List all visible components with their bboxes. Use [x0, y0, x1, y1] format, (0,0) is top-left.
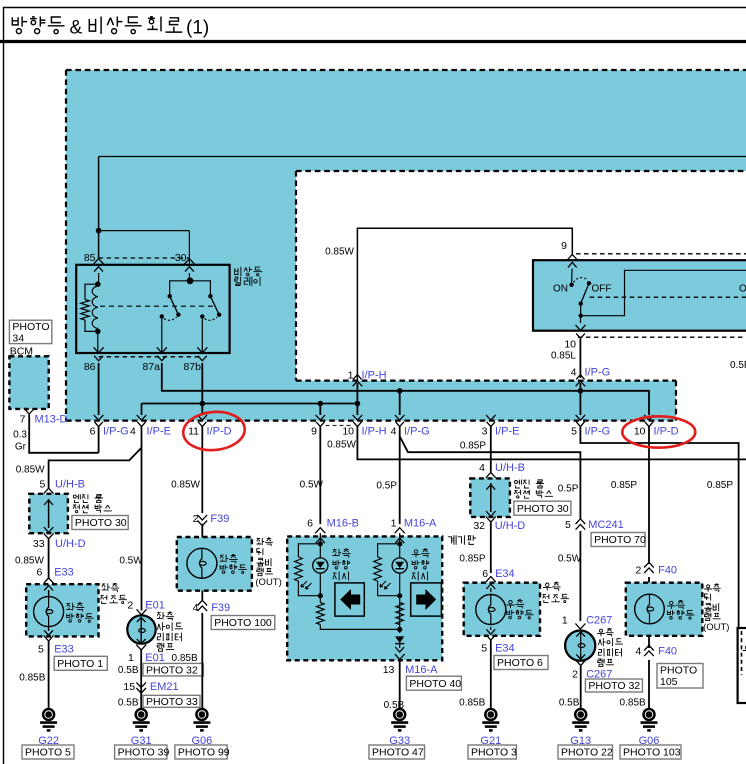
- connector 5 I/P-G: [576, 415, 586, 420]
- svg-text:0.85B: 0.85B: [459, 698, 485, 709]
- red ellipse around 10 I/P-D: [622, 416, 695, 447]
- svg-text:0.85L: 0.85L: [551, 351, 576, 362]
- svg-text:9: 9: [561, 240, 567, 252]
- connector 9: [316, 415, 326, 420]
- svg-text:10: 10: [342, 425, 354, 437]
- svg-text:Gr: Gr: [15, 441, 27, 452]
- svg-text:0.5B: 0.5B: [559, 698, 580, 709]
- F40 lamp box (right rear combination lamp): [626, 583, 703, 636]
- label 5 E34: [486, 635, 496, 641]
- lamp F39: [187, 548, 217, 578]
- svg-text:PHOTO 100: PHOTO 100: [214, 617, 272, 629]
- svg-text:PHOTO 3: PHOTO 3: [471, 747, 517, 759]
- connector 4 F40: [644, 651, 654, 656]
- ground G22: [48, 708, 50, 709]
- svg-text:6: 6: [482, 568, 488, 580]
- svg-text:PHOTO 22: PHOTO 22: [561, 747, 613, 759]
- svg-text:4: 4: [479, 462, 485, 474]
- svg-text:0.5P: 0.5P: [558, 484, 579, 495]
- svg-text:PHOTO 5: PHOTO 5: [25, 747, 71, 759]
- svg-text:I/P-H: I/P-H: [362, 425, 387, 437]
- PHOTO 40 box: [406, 676, 461, 690]
- right edge component box: [738, 628, 746, 703]
- harness region: [66, 70, 746, 421]
- svg-text:I/P-E: I/P-E: [495, 425, 519, 437]
- svg-text:F40: F40: [658, 646, 677, 658]
- PHOTO 30 box left: [72, 516, 128, 530]
- svg-text:105: 105: [660, 676, 678, 688]
- black left arrow: [335, 583, 364, 616]
- svg-text:1: 1: [562, 614, 568, 626]
- svg-text:PHOTO 70: PHOTO 70: [594, 534, 646, 546]
- junction box engine room (right): [470, 478, 510, 517]
- connector 5 MC241: [576, 524, 586, 529]
- hazard switch box: [533, 260, 746, 331]
- svg-text:32: 32: [473, 520, 485, 532]
- svg-text:PHOTO 99: PHOTO 99: [178, 747, 230, 759]
- svg-text:34: 34: [12, 332, 24, 344]
- ground G33: [399, 708, 401, 709]
- lamp E01 (left side repeater): [127, 615, 155, 643]
- svg-text:86: 86: [84, 361, 96, 373]
- svg-text:PHOTO: PHOTO: [660, 665, 697, 677]
- svg-text:2: 2: [193, 513, 199, 525]
- cluster right branch (right turn indicator): [399, 533, 401, 558]
- PHOTO 70 box: [591, 533, 645, 547]
- PHOTO 1 box: [54, 656, 107, 670]
- svg-text:&: &: [70, 18, 83, 39]
- PHOTO 5 box: [22, 745, 74, 759]
- lamp F40: [635, 594, 665, 624]
- svg-text:1: 1: [348, 370, 354, 382]
- switch second pole wire: [581, 270, 746, 315]
- svg-text:PHOTO: PHOTO: [12, 321, 49, 333]
- connector 3 I/P-E: [486, 415, 496, 420]
- svg-text:M13-D: M13-D: [35, 413, 68, 425]
- connector 4 I/P-G (lower): [395, 415, 405, 420]
- svg-text:0.85W: 0.85W: [325, 247, 354, 258]
- ground G06 (left): [201, 708, 203, 709]
- svg-text:4: 4: [130, 425, 136, 437]
- PHOTO 100 box: [211, 616, 275, 630]
- relay coil: [98, 273, 100, 284]
- svg-text:87a: 87a: [142, 361, 160, 373]
- svg-text:0.85P: 0.85P: [611, 480, 637, 491]
- svg-text:U/H-B: U/H-B: [495, 462, 525, 474]
- svg-text:11: 11: [188, 425, 199, 437]
- lamp E33: [34, 597, 64, 627]
- label 5 E33: [44, 636, 54, 642]
- svg-text:0.5P: 0.5P: [730, 360, 746, 371]
- PHOTO 33 box: [143, 695, 200, 707]
- svg-text:13: 13: [383, 664, 395, 676]
- svg-text:I/P-D: I/P-D: [654, 425, 679, 437]
- connector 15 EM21: [136, 682, 146, 687]
- wire net B horizontal: [142, 403, 358, 405]
- relay connector dashes: [99, 257, 190, 259]
- switch pin 9 entry: [567, 254, 577, 260]
- svg-text:0.5B: 0.5B: [118, 697, 139, 708]
- svg-text:9: 9: [311, 425, 317, 437]
- svg-text:0.5P: 0.5P: [376, 480, 397, 491]
- svg-text:5: 5: [40, 478, 46, 490]
- PHOTO 39 box: [115, 745, 167, 759]
- svg-text:0.85W: 0.85W: [171, 479, 200, 490]
- connector 2 F40: [644, 568, 654, 573]
- svg-text:5: 5: [38, 643, 44, 655]
- svg-text:4: 4: [571, 367, 577, 379]
- LED right indicator: [392, 558, 407, 573]
- svg-text:87b: 87b: [183, 361, 201, 373]
- connector 10 I/P-H: [353, 415, 363, 420]
- svg-text:6: 6: [307, 518, 313, 530]
- svg-text:U/H-B: U/H-B: [55, 478, 85, 490]
- svg-text:F39: F39: [210, 513, 229, 525]
- svg-text:E33: E33: [54, 643, 74, 655]
- svg-text:0.5W: 0.5W: [558, 553, 582, 564]
- svg-text:4: 4: [193, 602, 199, 614]
- connector 1 M16-A: [395, 528, 405, 534]
- svg-text:I/P-D: I/P-D: [207, 425, 232, 437]
- relay switch common: [188, 273, 190, 281]
- black right arrow: [411, 583, 442, 616]
- connector 6 M16-B: [315, 528, 325, 534]
- svg-text:0.85W: 0.85W: [15, 555, 44, 566]
- svg-text:PHOTO 1: PHOTO 1: [57, 658, 103, 670]
- label 33 U/H-D: [44, 533, 54, 539]
- wire 87a to right (net A): [162, 363, 649, 415]
- red ellipse around 11 I/P-D: [182, 409, 247, 452]
- svg-text:E34: E34: [495, 643, 515, 655]
- LED left indicator: [313, 558, 328, 573]
- svg-text:I/P-G: I/P-G: [103, 425, 129, 437]
- svg-text:EM21: EM21: [150, 681, 179, 693]
- E33 lamp box (left front turn lamp): [26, 584, 98, 636]
- relay label korean: [235, 267, 241, 276]
- svg-text:0.3: 0.3: [13, 429, 27, 440]
- svg-text:30: 30: [175, 252, 187, 264]
- svg-text:M16-B: M16-B: [327, 518, 359, 530]
- connector 11 I/P-D: [198, 415, 208, 420]
- svg-text:5: 5: [481, 643, 487, 655]
- svg-text:5: 5: [571, 425, 577, 437]
- I/P-H wire in cutout: [356, 383, 358, 404]
- svg-text:PHOTO 40: PHOTO 40: [409, 678, 461, 690]
- svg-text:I/P-H: I/P-H: [362, 370, 387, 382]
- svg-text:10: 10: [564, 339, 576, 351]
- svg-text:ON: ON: [739, 284, 746, 295]
- svg-text:7: 7: [20, 413, 26, 425]
- svg-text:1: 1: [128, 652, 134, 664]
- wire I/P-E branch to U/H-B: [49, 448, 142, 488]
- svg-text:PHOTO 47: PHOTO 47: [372, 747, 424, 759]
- svg-text:2: 2: [572, 669, 578, 681]
- svg-text:PHOTO 30: PHOTO 30: [75, 517, 127, 529]
- svg-text:0.85B: 0.85B: [19, 672, 45, 683]
- PHOTO 22 box: [558, 745, 613, 759]
- svg-text:0.85W: 0.85W: [327, 439, 356, 450]
- svg-text:0.5W: 0.5W: [300, 479, 324, 490]
- svg-text:I/P-G: I/P-G: [404, 425, 430, 437]
- svg-text:E01: E01: [145, 652, 165, 664]
- svg-text:0.85P: 0.85P: [707, 480, 733, 491]
- svg-text:6: 6: [90, 425, 96, 437]
- wire M13-D jog: [29, 415, 98, 453]
- connector 2 F39: [198, 515, 208, 520]
- connector 7 M13-D: [24, 409, 34, 415]
- connector 6 I/P-G: [94, 415, 104, 420]
- svg-text:PHOTO 6: PHOTO 6: [497, 657, 543, 669]
- svg-text:85: 85: [84, 252, 96, 264]
- svg-text:1: 1: [391, 518, 397, 530]
- connector 4 I/P-G (top of band): [576, 381, 586, 386]
- svg-text:I/P-G: I/P-G: [585, 367, 611, 379]
- connector tie 9-10: [326, 425, 354, 427]
- connector 10 I/P-D (circled): [644, 415, 654, 420]
- svg-text:0.85P: 0.85P: [459, 553, 485, 564]
- frame: [3, 7, 746, 9]
- wire 87b down: [201, 363, 203, 415]
- connector 4 I/P-E: [137, 415, 147, 420]
- hazard switch mech dashed: [590, 296, 746, 298]
- E34 lamp box (right front turn lamp): [464, 583, 540, 636]
- svg-text:(OUT): (OUT): [255, 577, 281, 588]
- svg-text:4: 4: [391, 425, 397, 437]
- lamp C267 (right side repeater): [565, 631, 595, 661]
- svg-text:PHOTO 39: PHOTO 39: [118, 747, 170, 759]
- svg-text:I/P-G: I/P-G: [585, 425, 611, 437]
- lamp E34: [476, 595, 506, 625]
- svg-text:F40: F40: [658, 565, 677, 577]
- PHOTO 32 box left: [143, 663, 203, 676]
- svg-text:6: 6: [37, 567, 43, 579]
- svg-text:2: 2: [127, 600, 133, 612]
- PHOTO 32 box right: [585, 679, 642, 692]
- svg-text:0.85P: 0.85P: [460, 440, 486, 451]
- svg-text:2: 2: [636, 565, 642, 577]
- svg-text:(1): (1): [186, 18, 209, 39]
- svg-text:ON: ON: [553, 284, 568, 295]
- junction box engine room (left): [29, 494, 68, 533]
- wire I/P-G(4) diagonal to MC241: [400, 436, 581, 519]
- PHOTO 99 box: [175, 745, 227, 759]
- svg-text:PHOTO 32: PHOTO 32: [146, 664, 198, 676]
- wire B+ feed: [99, 156, 746, 158]
- svg-text:(OUT): (OUT): [703, 622, 729, 633]
- ground G13: [580, 708, 582, 709]
- I/P-G4 vertical through band: [579, 383, 581, 415]
- diode: [395, 636, 404, 643]
- svg-text:F39: F39: [211, 602, 230, 614]
- PHOTO 103 box: [620, 745, 681, 759]
- svg-text:15: 15: [123, 681, 135, 693]
- svg-text:PHOTO 33: PHOTO 33: [146, 696, 198, 708]
- svg-text:PHOTO 30: PHOTO 30: [517, 503, 569, 515]
- PHOTO 105 box: [657, 664, 703, 689]
- ground G31: [140, 708, 142, 709]
- svg-text:0.85B: 0.85B: [620, 698, 646, 709]
- svg-text:10: 10: [634, 425, 646, 437]
- F39 lamp box (left rear combination lamp): [177, 537, 252, 591]
- wire I/P-H(10) to right edge: [357, 454, 746, 460]
- switch pin 10 exit: [580, 318, 582, 324]
- svg-text:I/P-E: I/P-E: [147, 425, 171, 437]
- svg-text:M16-A: M16-A: [405, 664, 438, 676]
- connector 4 F39: [198, 606, 208, 611]
- ground G21: [490, 708, 492, 709]
- svg-text:5: 5: [565, 519, 571, 531]
- svg-text:E34: E34: [495, 568, 515, 580]
- BCM box: [9, 356, 48, 409]
- svg-text:0.5W: 0.5W: [119, 555, 143, 566]
- PHOTO 47 box: [369, 745, 425, 759]
- svg-text:0.85W: 0.85W: [16, 464, 45, 475]
- svg-text:0.5B: 0.5B: [118, 665, 139, 676]
- svg-text:33: 33: [33, 538, 45, 550]
- svg-text:C267: C267: [586, 614, 612, 626]
- PHOTO 34 box: [9, 320, 51, 343]
- svg-text:4: 4: [636, 646, 642, 658]
- PHOTO 6 box: [494, 656, 548, 670]
- PHOTO 30 box right: [514, 501, 571, 515]
- svg-text:U/H-D: U/H-D: [495, 520, 526, 532]
- cluster left branch (left turn indicator): [319, 533, 321, 558]
- svg-text:OFF: OFF: [592, 284, 612, 295]
- svg-text:PHOTO 103: PHOTO 103: [623, 747, 681, 759]
- relay mech link (dashed): [100, 305, 213, 307]
- connector 1 I/P-H (top of band): [353, 381, 363, 386]
- relay switch right (87b): [208, 294, 212, 298]
- cluster box: [287, 536, 442, 660]
- relay switch left (87a): [168, 294, 172, 298]
- svg-text:E01: E01: [145, 600, 165, 612]
- ground G06 (right): [648, 708, 650, 709]
- svg-text:3: 3: [482, 425, 488, 437]
- svg-text:U/H-D: U/H-D: [55, 538, 86, 550]
- svg-text:0.85B: 0.85B: [172, 653, 198, 664]
- wire 86 down: [98, 363, 100, 415]
- hazard switch dashed boundary: [576, 253, 746, 255]
- connector 32 U/H-D: [486, 517, 496, 523]
- svg-text:MC241: MC241: [588, 519, 623, 531]
- PHOTO 3 box: [468, 745, 516, 759]
- svg-text:PHOTO 32: PHOTO 32: [588, 680, 640, 692]
- svg-text:M16-A: M16-A: [404, 518, 437, 530]
- relay box (hazard relay): [76, 265, 229, 353]
- svg-text:E33: E33: [54, 567, 74, 579]
